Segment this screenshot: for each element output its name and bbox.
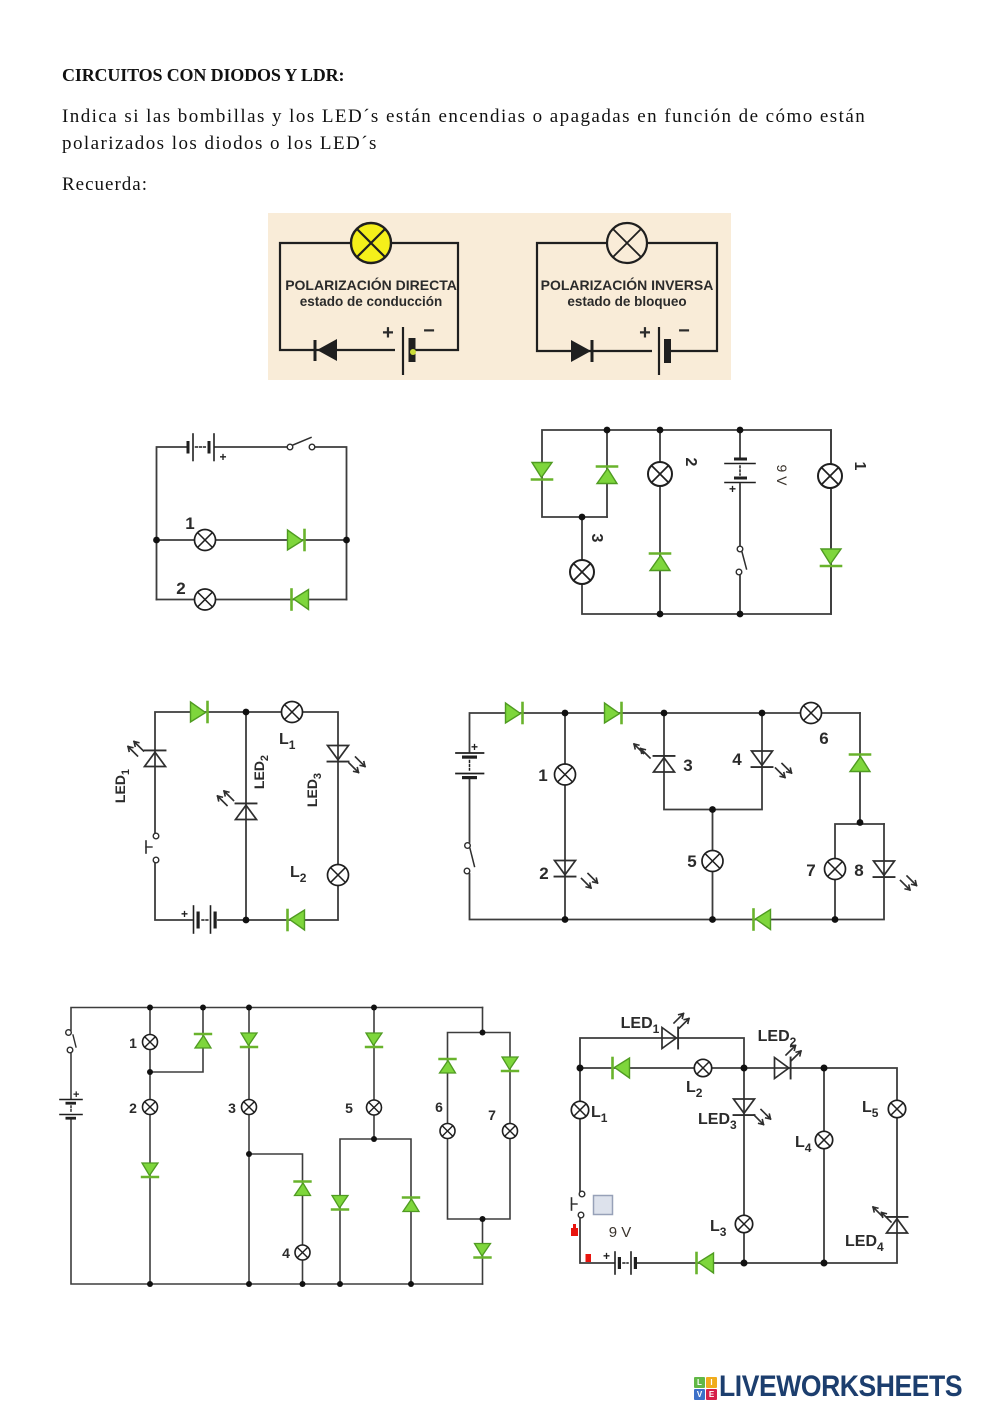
svg-text:+: + xyxy=(639,322,651,344)
diode green down box-right xyxy=(502,1057,518,1071)
lamp 2 xyxy=(195,589,216,610)
red mark 2 xyxy=(586,1254,592,1262)
node right xyxy=(821,1065,828,1072)
svg-text:estado de bloqueo: estado de bloqueo xyxy=(567,294,686,309)
node top c xyxy=(246,1005,252,1011)
lamp on (yellow bulb) xyxy=(351,223,391,263)
node a xyxy=(604,427,611,434)
LED3 (down, middle branch) xyxy=(734,1099,771,1125)
LED3 (down, right edge) xyxy=(328,746,366,773)
node b2 xyxy=(709,916,716,923)
diode D-right (blocking) xyxy=(571,340,592,362)
node bottom right xyxy=(821,1260,828,1267)
battery left xyxy=(60,1089,82,1120)
battery 9V xyxy=(725,458,755,497)
node mid a xyxy=(147,1069,153,1075)
svg-text:7: 7 xyxy=(806,861,815,880)
diode green right top 1 xyxy=(506,703,523,723)
wire frame circuit2 xyxy=(542,430,831,614)
node top xyxy=(243,709,250,716)
lamp L2 xyxy=(328,865,349,886)
node t1 xyxy=(562,710,569,717)
lamp off (white bulb) xyxy=(607,223,647,263)
svg-text:LED2: LED2 xyxy=(758,1028,797,1049)
node top d xyxy=(371,1005,377,1011)
diode green up branch c2 xyxy=(295,1182,311,1196)
diode green up (parallel with lamp1) xyxy=(195,1034,211,1048)
svg-text:LED3: LED3 xyxy=(698,1111,737,1132)
diode green down branch d xyxy=(366,1033,382,1047)
node bottom d xyxy=(337,1281,343,1287)
svg-text:L1: L1 xyxy=(279,731,296,752)
battery left xyxy=(382,320,435,375)
svg-text:+: + xyxy=(603,1249,610,1263)
lamp L1 xyxy=(571,1101,588,1118)
node bottom c xyxy=(300,1281,306,1287)
switch top-left xyxy=(66,1030,76,1053)
svg-text:LED3: LED3 xyxy=(304,773,324,807)
svg-text:4: 4 xyxy=(282,1245,290,1261)
node top a xyxy=(147,1005,153,1011)
svg-text:5: 5 xyxy=(345,1100,353,1116)
battery bottom xyxy=(181,906,217,933)
svg-text:+: + xyxy=(73,1089,79,1101)
node top b xyxy=(200,1005,206,1011)
diode green down sub-left xyxy=(332,1196,348,1210)
diode D2 (green, left) xyxy=(292,590,309,610)
lamp 1 xyxy=(818,464,842,488)
svg-text:L1: L1 xyxy=(591,1104,608,1125)
diode green up box-left xyxy=(440,1059,456,1073)
diode D-left (conducting) xyxy=(315,339,337,361)
wire frame circuit4 xyxy=(470,713,885,920)
diode D1 (green, right) xyxy=(288,530,305,550)
svg-text:+: + xyxy=(181,907,188,921)
wire frame circuit1 xyxy=(157,447,347,600)
diode green up under lamp 2 xyxy=(650,554,670,571)
svg-text:2: 2 xyxy=(539,864,548,883)
node bottom mid xyxy=(741,1260,748,1267)
lamp 7 xyxy=(503,1124,518,1139)
svg-text:POLARIZACIÓN INVERSA: POLARIZACIÓN INVERSA xyxy=(541,276,714,293)
node d xyxy=(579,514,586,521)
svg-text:+: + xyxy=(471,740,478,754)
svg-text:4: 4 xyxy=(732,750,742,769)
switch (open) xyxy=(736,546,746,575)
diode green left main rail xyxy=(613,1058,630,1078)
diode green left bottom xyxy=(754,910,771,930)
svg-text:9 V: 9 V xyxy=(774,464,790,486)
lamp 2 xyxy=(143,1100,158,1115)
svg-text:6: 6 xyxy=(819,729,828,748)
svg-text:LED1: LED1 xyxy=(112,769,132,803)
battery right xyxy=(639,320,690,375)
wire frame circuit3 xyxy=(155,712,338,920)
push switch left xyxy=(572,1191,585,1218)
LED4 (up, right edge) xyxy=(873,1207,908,1233)
lamp 6 xyxy=(440,1124,455,1139)
recuerda figure background xyxy=(268,213,731,380)
svg-text:1: 1 xyxy=(538,766,547,785)
node b3 xyxy=(832,916,839,923)
lamp 2 xyxy=(648,462,672,486)
lamp 1 xyxy=(555,764,576,785)
node right xyxy=(343,537,350,544)
node mid c xyxy=(246,1151,252,1157)
svg-text:5: 5 xyxy=(687,852,696,871)
diode green up sub-right xyxy=(403,1198,419,1212)
svg-text:L2: L2 xyxy=(290,864,307,885)
svg-text:−: − xyxy=(423,320,435,342)
LED1 (right, top path) xyxy=(662,1014,689,1049)
svg-text:3: 3 xyxy=(588,534,605,543)
svg-text:L4: L4 xyxy=(795,1134,812,1155)
diode green left bottom rail xyxy=(697,1253,714,1273)
LED1 (up, on left edge) xyxy=(128,742,166,767)
diode green left on bottom wire xyxy=(288,910,305,930)
svg-text:3: 3 xyxy=(228,1100,236,1116)
svg-text:6: 6 xyxy=(435,1099,443,1115)
lamp 7 xyxy=(825,859,846,880)
switch S1 xyxy=(287,438,315,450)
lamp 3 xyxy=(570,560,594,584)
switch left xyxy=(464,843,474,874)
lamp 5 xyxy=(367,1100,382,1115)
red mark 1 xyxy=(571,1224,578,1236)
LED2 (up, middle branch) xyxy=(218,791,257,820)
lamp L2 xyxy=(694,1059,711,1076)
node b xyxy=(657,427,664,434)
lamp L1 xyxy=(282,702,303,723)
diode green down on left branch xyxy=(532,463,552,480)
diode green down below box xyxy=(475,1244,491,1258)
node bottom b xyxy=(246,1281,252,1287)
svg-text:9 V: 9 V xyxy=(609,1224,632,1241)
svg-text:2: 2 xyxy=(129,1100,137,1116)
lamp L5 xyxy=(888,1100,905,1117)
node c xyxy=(737,427,744,434)
svg-text:L5: L5 xyxy=(862,1099,879,1120)
LDR square xyxy=(594,1196,613,1215)
lamp 3 xyxy=(242,1100,257,1115)
diode green up right edge xyxy=(850,755,870,772)
node box top xyxy=(480,1030,486,1036)
LED4 (down) xyxy=(752,751,792,778)
node b1 xyxy=(562,916,569,923)
svg-text:L2: L2 xyxy=(686,1079,703,1100)
svg-text:1: 1 xyxy=(851,462,868,471)
lamp 6 xyxy=(801,703,822,724)
wire frame circuit5 xyxy=(71,1008,510,1285)
svg-text:8: 8 xyxy=(854,861,863,880)
svg-text:L3: L3 xyxy=(710,1218,727,1239)
right circuit loop wire xyxy=(537,243,717,351)
diode green right top 2 xyxy=(605,703,622,723)
lamp L4 xyxy=(815,1131,832,1148)
svg-text:1: 1 xyxy=(129,1035,137,1051)
diode green down branch a xyxy=(142,1163,158,1177)
svg-text:1: 1 xyxy=(185,514,194,533)
lamp 1 xyxy=(195,530,216,551)
battery bottom xyxy=(603,1249,637,1274)
svg-text:+: + xyxy=(729,482,736,496)
LED3 (up) xyxy=(634,744,675,772)
node mid xyxy=(741,1065,748,1072)
node e xyxy=(657,611,664,618)
node mid d xyxy=(371,1136,377,1142)
LED2 (down) xyxy=(555,861,598,889)
svg-text:2: 2 xyxy=(682,458,699,467)
node left xyxy=(153,537,160,544)
node left xyxy=(577,1065,584,1072)
svg-text:2: 2 xyxy=(176,579,185,598)
svg-text:−: − xyxy=(678,320,690,342)
node bottom xyxy=(243,917,250,924)
node box bottom xyxy=(480,1216,486,1222)
lamp 1 xyxy=(143,1035,158,1050)
wire frame circuit6 xyxy=(580,1038,897,1263)
lamp 4 xyxy=(295,1245,310,1260)
node t3 xyxy=(759,710,766,717)
left circuit loop wire xyxy=(280,243,458,350)
svg-text:LED1: LED1 xyxy=(621,1015,660,1036)
node r1 xyxy=(857,819,864,826)
node bottom a xyxy=(147,1281,153,1287)
svg-text:3: 3 xyxy=(683,756,692,775)
node f xyxy=(737,611,744,618)
LED2 (right, on rail) xyxy=(775,1046,802,1079)
diode green up on second branch xyxy=(597,467,617,484)
node bottom e xyxy=(408,1281,414,1287)
diode green down branch c xyxy=(241,1033,257,1047)
svg-text:+: + xyxy=(220,450,227,464)
LED8 (down) xyxy=(874,861,917,890)
svg-text:estado de conducción: estado de conducción xyxy=(300,294,443,309)
lamp L3 xyxy=(735,1215,752,1232)
battery B1 xyxy=(187,434,227,464)
lamp 5 xyxy=(702,851,723,872)
diode green right on top wire xyxy=(191,702,208,722)
diode green down on right branch xyxy=(821,549,841,566)
node t2 xyxy=(661,710,668,717)
svg-text:POLARIZACIÓN DIRECTA: POLARIZACIÓN DIRECTA xyxy=(285,276,457,293)
svg-text:+: + xyxy=(382,322,394,344)
battery left xyxy=(456,740,484,779)
push switch S xyxy=(146,833,159,863)
svg-text:LED2: LED2 xyxy=(251,755,271,789)
svg-text:LED4: LED4 xyxy=(845,1233,884,1254)
node m1 xyxy=(709,806,716,813)
svg-text:7: 7 xyxy=(488,1107,496,1123)
